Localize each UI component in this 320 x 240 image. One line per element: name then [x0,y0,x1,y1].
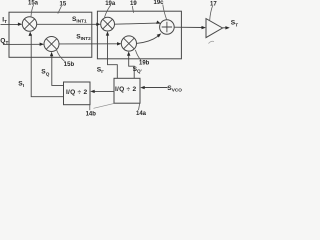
arrowhead into 19a left [96,23,100,26]
svg-text:15b: 15b [64,62,75,68]
input IT label [2,16,7,24]
wire 19b to summer 19c [136,36,158,43]
leader for label 19b [135,50,140,60]
arrowhead output [225,26,229,29]
label 19b [139,61,150,67]
divider 14a box [114,78,140,103]
wire summer to amplifier [174,26,202,28]
arrowhead into 15b left [40,43,44,46]
mixer 15b [44,37,59,52]
wire amplifier output ST [222,27,226,29]
svg-text:I/Q ÷ 2: I/Q ÷ 2 [66,89,88,96]
leader for label 15a [31,5,34,16]
svg-text:I/Q ÷ 2: I/Q ÷ 2 [115,86,137,93]
output label ST [231,20,238,28]
arrowhead into summer lower-left [157,32,163,37]
block 15 (quadrature modulator box) [9,12,92,57]
svg-text:19b: 19b [139,61,150,67]
arrowhead into 19b bottom [127,51,130,55]
leader for label 19a [105,5,111,17]
mixer 19a [101,17,115,31]
block 19 (image-reject mixer box) [97,11,181,59]
leader for label 15b [57,50,65,62]
arrowhead into 19a bottom [106,31,109,35]
label 19a [105,1,116,7]
label 15 [60,1,67,7]
svg-text:19: 19 [130,1,137,7]
node label SVCO [167,85,182,93]
mixer 19b [121,36,136,51]
wire 14a to 14b [95,90,114,92]
wire IT input [1,23,20,25]
label 14a [136,111,147,117]
arrowhead into 15b bottom [50,52,53,56]
svg-text:14a: 14a [136,111,147,117]
arrowhead into 14a right [140,86,144,89]
node label SI [18,80,24,88]
wire SQ' from 14a to mixer 19b [129,55,135,78]
leader for label 19 [132,6,133,13]
input QT label [0,37,8,45]
wire SI' from 14a to mixer 19a [108,35,118,78]
wire SI from 14b to mixer 15a [30,35,63,97]
arrowhead into summer upper-left [156,20,161,25]
wire 15b output to 19b (SINT2) [59,43,118,45]
faint scan smudge [209,41,215,43]
wire SQ from 14b to mixer 15b [52,56,64,86]
node label SQ' [133,66,142,74]
wire SVCO into 14a [144,87,168,89]
summer 19c [160,20,175,35]
node label SINT1 [72,16,87,24]
amplifier 17 [206,19,223,38]
label 17 [210,2,217,8]
leader for label 17 [210,6,213,20]
arrowhead into 15a left [18,23,22,26]
divider 14b box [64,82,91,105]
arrowhead into 15a bottom [29,32,32,36]
label 19 [130,1,137,7]
svg-text:14b: 14b [86,111,97,117]
arrowhead into 19b left [117,42,121,45]
label 15a [28,1,39,7]
leader diagonal to 14a box corner [94,104,114,109]
node label SINT2 [76,33,91,41]
wire QT input [3,43,41,45]
wire 19a to summer 19c [115,23,158,24]
svg-text:17: 17 [210,2,217,8]
label 19c [154,0,165,6]
mixer 15a [22,17,36,31]
node label SQ [41,69,49,77]
label 15b [64,62,75,68]
leader for label 19c [163,5,167,20]
leader for label 14b [89,105,91,110]
leader for label 14a [139,103,140,110]
leader for label 15 [58,6,62,14]
svg-text:15: 15 [60,1,67,7]
wire 15a output to 19a (SINT1) [37,23,98,25]
arrowhead into 14b right [90,90,94,93]
label 14b [86,111,97,117]
arrowhead into amplifier [202,26,206,29]
node label SI' [97,66,104,74]
